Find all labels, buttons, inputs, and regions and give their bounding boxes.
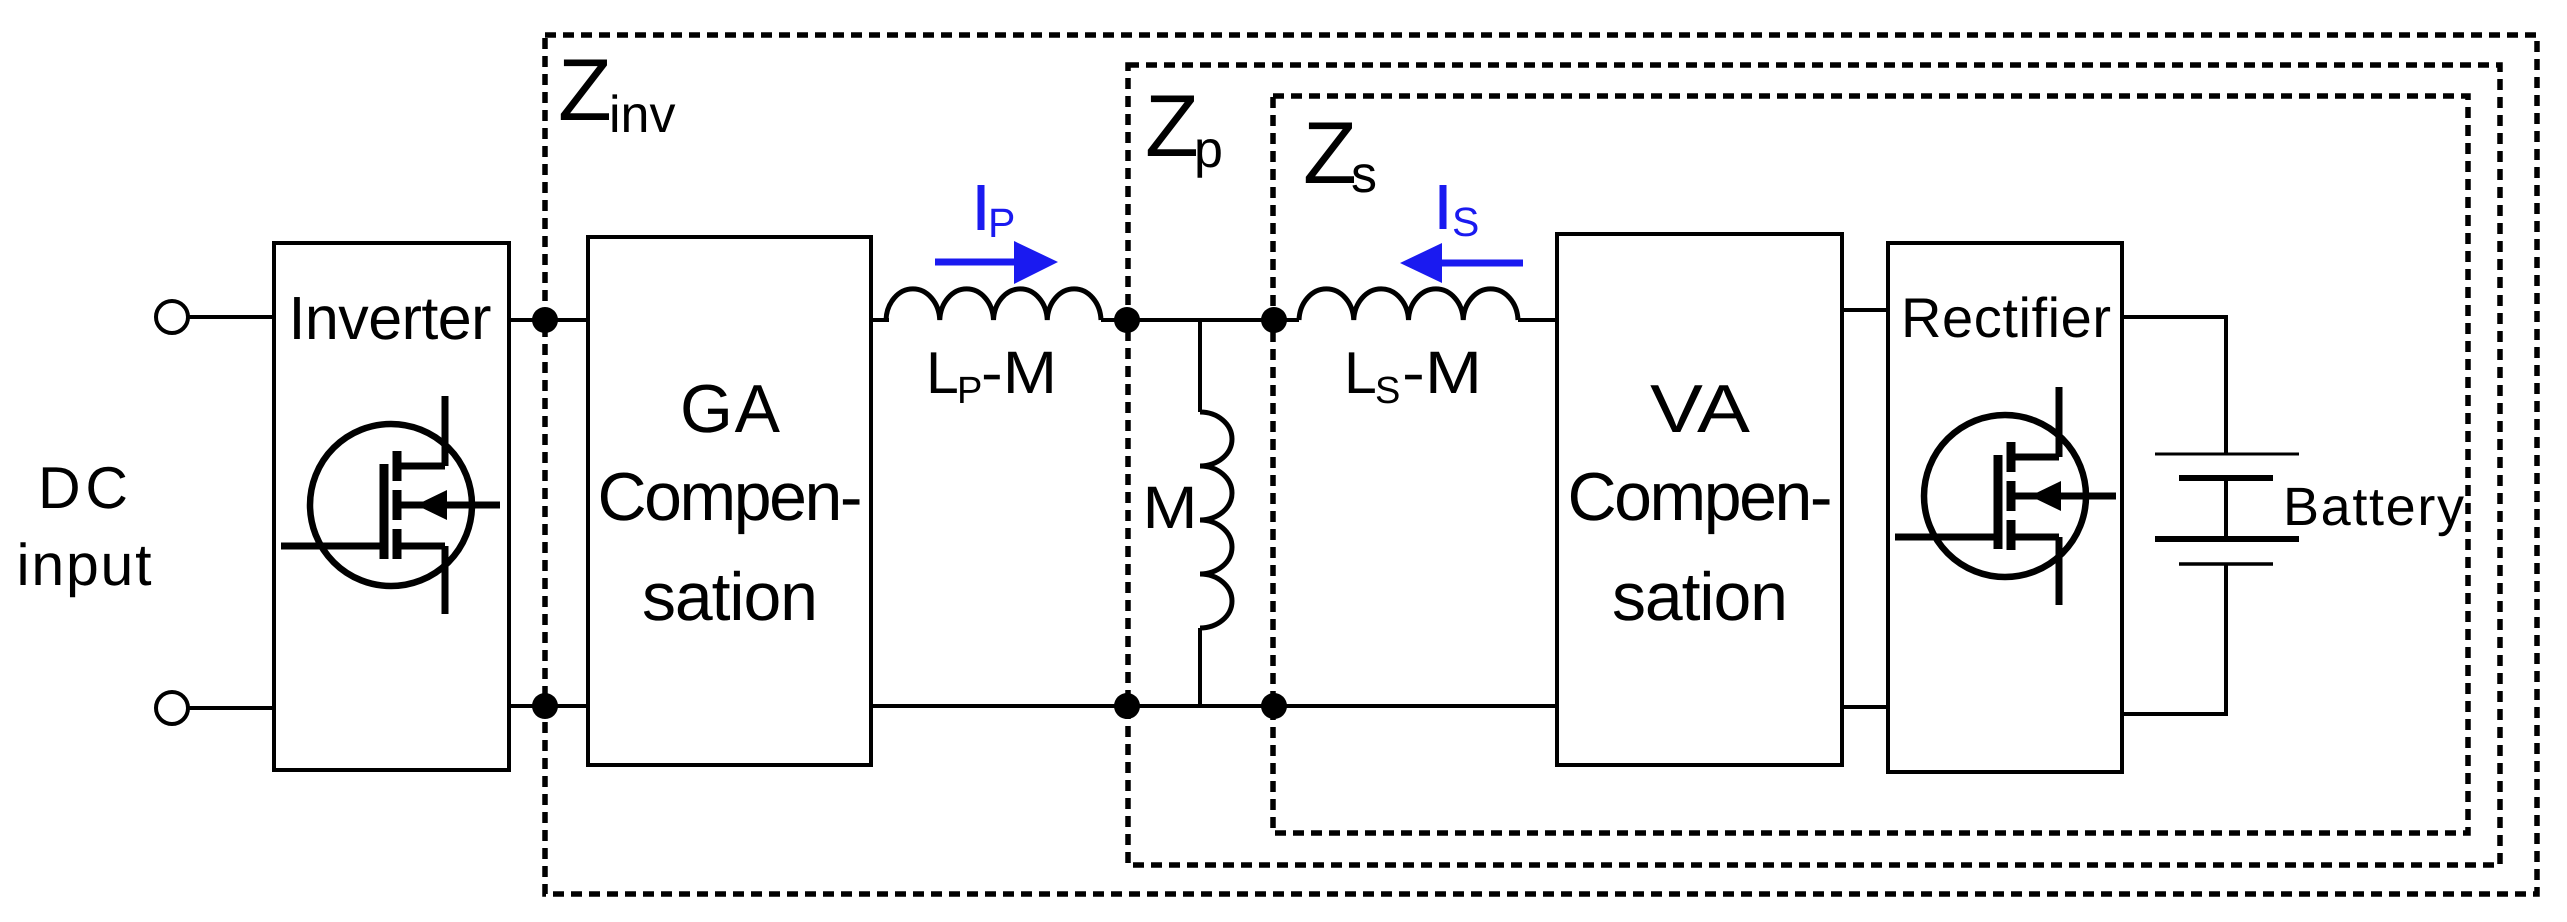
label Ip (blue) xyxy=(978,185,1016,246)
svg-text:input: input xyxy=(17,532,152,598)
svg-text:Inverter: Inverter xyxy=(289,284,492,352)
svg-text:S: S xyxy=(1375,370,1400,412)
junction node (Zinv top) xyxy=(532,307,558,333)
wire xyxy=(1842,308,1888,312)
VA compensation block xyxy=(1557,234,1842,765)
wire xyxy=(2122,317,2226,454)
svg-text:p: p xyxy=(1194,121,1223,179)
current arrow Is (blue) xyxy=(1400,243,1523,283)
wire xyxy=(509,318,588,322)
node DC input label xyxy=(17,455,152,598)
svg-text:Battery: Battery xyxy=(2283,477,2464,537)
wire xyxy=(871,704,1557,708)
wire xyxy=(1198,320,1202,412)
svg-text:Z: Z xyxy=(558,40,612,139)
junction node (Zp top) xyxy=(1114,307,1140,333)
label Zp xyxy=(1145,76,1223,179)
transistor Q2 (rectifier MOSFET) xyxy=(1895,387,2116,605)
svg-text:Rectifier: Rectifier xyxy=(1901,286,2111,349)
inductor M xyxy=(1200,412,1232,628)
transistor Q1 (inverter MOSFET) xyxy=(281,396,500,614)
svg-text:DC: DC xyxy=(38,455,128,521)
inverter block xyxy=(274,243,509,770)
wire xyxy=(1842,705,1888,709)
svg-text:VA: VA xyxy=(1650,371,1751,447)
current arrow Ip (blue) xyxy=(935,241,1058,284)
svg-text:GA: GA xyxy=(680,371,781,447)
svg-text:L: L xyxy=(1344,340,1377,406)
svg-text:sation: sation xyxy=(1612,559,1788,635)
label Zinv xyxy=(558,40,675,144)
wire xyxy=(871,318,889,322)
svg-text:Compen-: Compen- xyxy=(598,459,863,535)
svg-text:-M: -M xyxy=(1402,339,1482,406)
junction node (Zs top) xyxy=(1261,307,1287,333)
junction node (Zinv bottom) xyxy=(532,693,558,719)
junction node (Zp bottom) xyxy=(1114,693,1140,719)
terminal DC+ xyxy=(156,301,188,333)
junction node (Zs bottom) xyxy=(1261,693,1287,719)
terminal DC- xyxy=(156,692,188,724)
value label Ls-M xyxy=(1344,339,1482,412)
VA compensation label xyxy=(1568,371,1833,635)
svg-text:L: L xyxy=(926,340,959,406)
dashed box Zs xyxy=(1273,96,2468,833)
GA compensation label xyxy=(598,371,863,635)
wire xyxy=(509,704,588,708)
label Zs xyxy=(1303,103,1377,204)
svg-text:P: P xyxy=(988,200,1015,246)
svg-text:Z: Z xyxy=(1145,76,1199,175)
svg-text:s: s xyxy=(1351,146,1377,204)
battery B1 xyxy=(2155,454,2299,564)
svg-text:S: S xyxy=(1452,199,1479,245)
dashed box Zp xyxy=(1128,65,2500,865)
wire xyxy=(189,315,274,319)
wire xyxy=(1101,318,1299,322)
svg-text:M: M xyxy=(1143,474,1198,541)
svg-text:P: P xyxy=(957,370,982,412)
wire xyxy=(1518,318,1557,322)
inductor Ls-M xyxy=(1299,289,1518,320)
dashed box Zinv xyxy=(545,35,2537,894)
svg-text:inv: inv xyxy=(609,86,675,144)
GA compensation block xyxy=(588,237,871,765)
rectifier block xyxy=(1888,243,2122,772)
svg-text:sation: sation xyxy=(642,559,818,635)
svg-text:-M: -M xyxy=(981,339,1057,406)
wire xyxy=(2122,564,2226,714)
label Is (blue) xyxy=(1440,185,1480,245)
value label Lp-M xyxy=(926,339,1057,412)
svg-text:Compen-: Compen- xyxy=(1568,459,1833,535)
inductor Lp-M xyxy=(886,289,1101,320)
wire xyxy=(189,706,274,710)
svg-text:Z: Z xyxy=(1303,103,1357,202)
wire xyxy=(1198,628,1202,706)
